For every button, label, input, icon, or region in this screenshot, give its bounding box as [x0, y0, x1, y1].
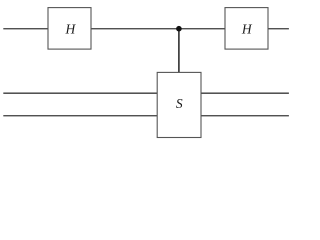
svg-text:S: S: [176, 96, 183, 111]
svg-text:H: H: [65, 21, 77, 36]
svg-text:H: H: [241, 21, 253, 36]
